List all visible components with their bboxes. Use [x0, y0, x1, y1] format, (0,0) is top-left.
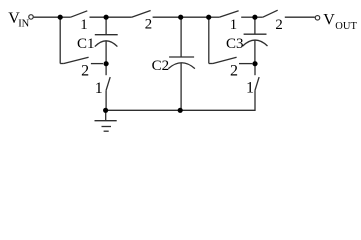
ground bar 1 — [95, 120, 117, 122]
svg-text:2: 2 — [81, 63, 89, 80]
svg-text:2: 2 — [230, 63, 238, 80]
terminal VOUT — [315, 16, 320, 21]
switch S2a lever (phase 2) — [132, 11, 151, 18]
switch S1b lever (phase 1) — [219, 11, 238, 17]
node A junction dot — [58, 15, 63, 20]
capacitor C1 bottom lead to node F1 — [105, 41, 107, 64]
label VOUT — [323, 11, 357, 32]
wire node D down — [208, 17, 210, 63]
svg-text:OUT: OUT — [335, 21, 357, 32]
capacitor C3 top plate — [244, 33, 267, 35]
svg-text:C3: C3 — [226, 36, 244, 52]
svg-text:IN: IN — [18, 19, 29, 30]
svg-text:1: 1 — [95, 80, 103, 97]
capacitor C3 lead from node E — [254, 17, 256, 34]
switch S1a lever (phase 1) — [60, 11, 87, 17]
wire node E to switch S2b — [255, 16, 263, 18]
svg-text:1: 1 — [230, 17, 237, 33]
label VIN — [8, 10, 29, 30]
node B junction dot — [104, 15, 109, 20]
capacitor C3 curved plate — [243, 40, 268, 46]
switch S2b lever (phase 2) — [263, 10, 278, 17]
capacitor C1 lead from node B — [105, 17, 107, 35]
capacitor C2 bottom lead to bottom rail — [180, 63, 182, 110]
bottom rail wire to ground node G — [106, 109, 181, 111]
capacitor C2 lead from node C — [180, 17, 182, 57]
wire switch S1c to ground node G — [105, 90, 107, 110]
wire S1b contact to node E — [241, 16, 255, 18]
svg-text:C1: C1 — [77, 36, 95, 52]
node E junction dot — [252, 15, 257, 20]
wire node B to switch S2a — [106, 16, 132, 18]
svg-text:C2: C2 — [152, 58, 170, 74]
svg-text:1: 1 — [80, 17, 87, 33]
capacitor C2 top plate — [169, 56, 194, 58]
switch S2c (phase 2, C1 bottom row) — [60, 57, 103, 63]
capacitor C3 bottom lead to node F3 — [254, 40, 256, 64]
svg-text:2: 2 — [275, 17, 282, 33]
node G junction dot (ground) — [103, 108, 108, 113]
node C2-bottom junction dot — [178, 108, 183, 113]
switch S1c lever (phase 1, vertical) — [106, 77, 110, 90]
wire node F1 down to switch S1c — [105, 64, 107, 75]
capacitor C2 curved plate — [168, 63, 195, 69]
wire S2b contact to VOUT terminal — [285, 16, 315, 18]
ground bar 2 — [102, 126, 112, 128]
capacitor C1 curved plate — [95, 41, 118, 47]
switch S1d lever (phase 1, vertical) — [255, 77, 259, 90]
wire node D to switch S1b — [209, 16, 220, 18]
switch S2d (phase 2, C3 bottom row) — [209, 57, 253, 63]
ground bar 3 — [104, 130, 109, 132]
capacitor C1 top plate — [95, 34, 118, 36]
svg-text:1: 1 — [246, 79, 254, 96]
wire node C to node D — [181, 16, 209, 18]
node C junction dot — [178, 15, 183, 20]
svg-text:V: V — [323, 11, 335, 28]
node D junction dot — [206, 15, 211, 20]
node F1 junction dot — [104, 61, 109, 66]
wire switch S1d down to bottom rail corner — [181, 90, 255, 110]
wire node F3 down to switch S1d — [254, 64, 256, 75]
ground lead — [105, 110, 107, 120]
svg-text:2: 2 — [145, 16, 152, 32]
terminal VIN — [29, 15, 34, 20]
wire S2a contact to node C — [153, 16, 181, 18]
wire S1a contact to node B — [90, 16, 107, 18]
wire node A down — [59, 17, 61, 63]
wire VIN to node A — [34, 16, 61, 18]
node F3 junction dot — [252, 61, 257, 66]
